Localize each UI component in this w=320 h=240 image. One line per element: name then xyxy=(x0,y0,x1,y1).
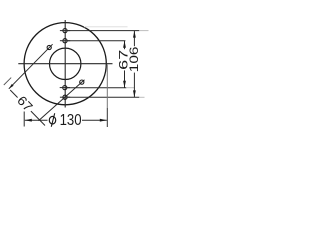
φ130 dimension right extension line lower part xyxy=(106,108,108,127)
leader from H1 xyxy=(67,30,139,32)
hole H1 top xyxy=(60,29,70,33)
label 67 lower-left (rotated) xyxy=(13,92,37,116)
leader from H3 faint continuation xyxy=(126,87,134,89)
φA marker circle xyxy=(47,45,51,49)
leader from H1 faint continuation xyxy=(139,30,148,32)
outer circle φ130 plate xyxy=(24,23,106,105)
leader from H3 xyxy=(67,87,126,89)
faint auxiliary line top right xyxy=(84,26,128,28)
diagonal leader D1 through φA from H1 xyxy=(9,44,53,89)
svg-text:106: 106 xyxy=(127,47,141,73)
φ130 dimension right extension line upper part xyxy=(106,65,108,109)
diagonal dimension line D3 lower-left xyxy=(10,90,45,126)
svg-text:67: 67 xyxy=(14,93,36,115)
leader from H4 faint continuation xyxy=(139,96,144,98)
φ130 dimension line left segment with arrow xyxy=(25,119,48,122)
label 67 right (rotated 90) xyxy=(117,49,130,70)
φB marker circle xyxy=(80,80,84,84)
tick T1 near D1 arrow xyxy=(4,78,11,85)
vertical centerline xyxy=(64,20,66,108)
hole H2 xyxy=(60,39,70,43)
dimension 67 right vertical line xyxy=(123,41,126,88)
leader from H2 xyxy=(67,40,125,42)
label φ130: drawn ø symbol xyxy=(49,113,55,126)
diagonal leader D2 through φB and H4 xyxy=(39,80,85,121)
horizontal centerline xyxy=(18,63,112,65)
hole H3 xyxy=(60,86,70,90)
φ130 dimension left extension line xyxy=(23,112,25,127)
label 106 right (rotated 90) xyxy=(127,46,141,72)
inner circle center hole xyxy=(49,48,80,79)
arrowhead at D1 end xyxy=(9,84,14,89)
φ130 dimension line right segment with arrow xyxy=(82,119,107,122)
hole H4 bottom xyxy=(60,95,70,99)
svg-text:130: 130 xyxy=(60,112,82,129)
leader from H4 xyxy=(67,96,139,98)
dimension 106 right vertical line xyxy=(133,31,136,98)
